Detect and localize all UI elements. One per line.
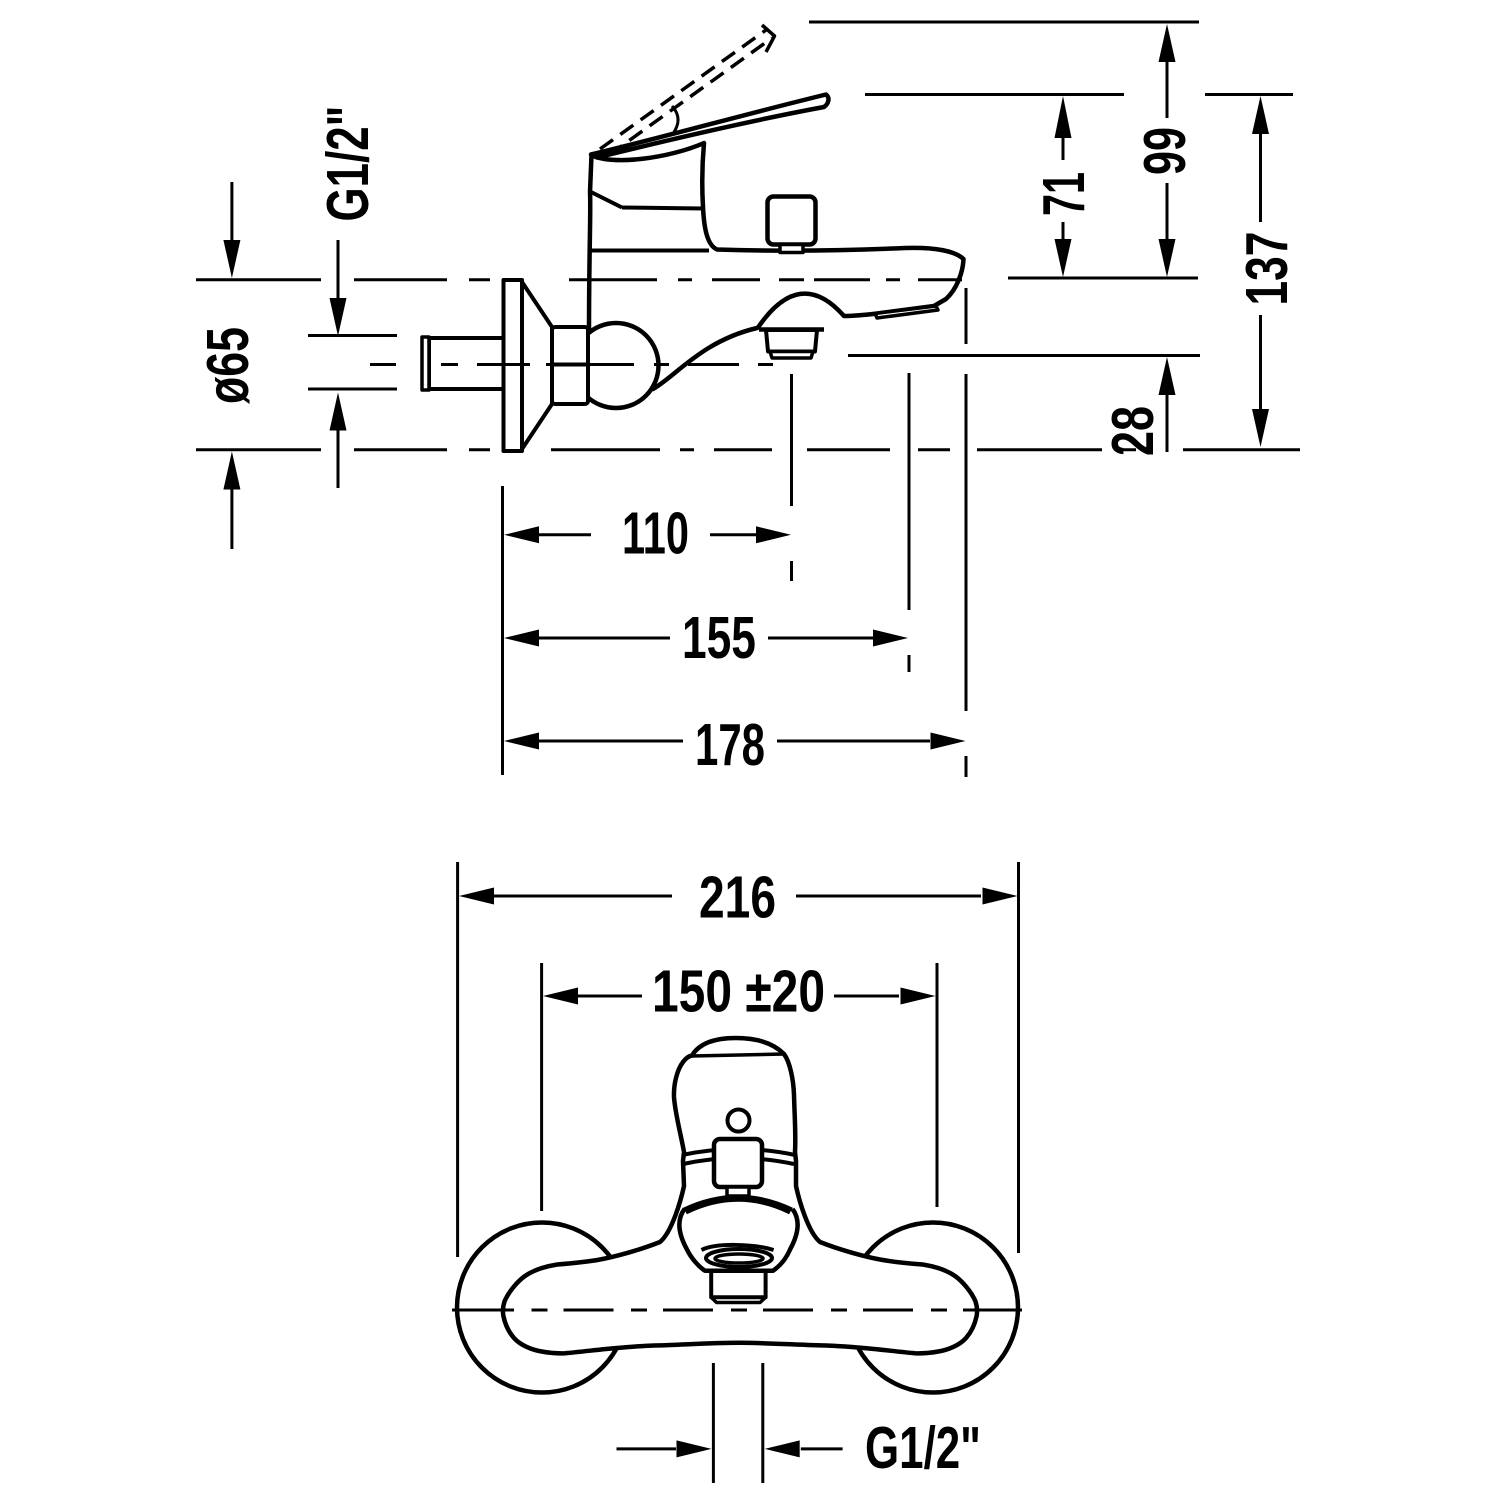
svg-text:137: 137 <box>1235 232 1301 306</box>
svg-text:G1/2": G1/2" <box>865 1416 981 1482</box>
svg-text:110: 110 <box>622 500 689 566</box>
svg-text:99: 99 <box>1131 127 1197 175</box>
svg-text:155: 155 <box>682 606 756 672</box>
svg-text:71: 71 <box>1031 172 1097 216</box>
svg-text:216: 216 <box>699 865 776 931</box>
svg-text:178: 178 <box>695 712 765 778</box>
svg-text:ø65: ø65 <box>196 327 261 404</box>
svg-text:G1/2": G1/2" <box>316 106 382 222</box>
svg-text:150 ±20: 150 ±20 <box>652 959 825 1025</box>
svg-text:28: 28 <box>1101 406 1166 456</box>
